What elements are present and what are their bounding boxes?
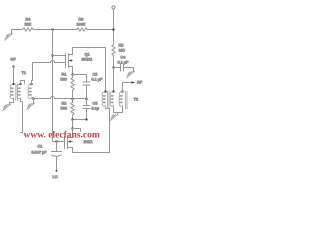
svg-text:R4: R4	[26, 18, 31, 22]
wire (R5 to C4 node)	[113, 56, 115, 68]
svg-text:www. elecfans.com: www. elecfans.com	[24, 131, 100, 141]
node (R1/C2 bottom junctions)	[72, 98, 74, 100]
ground (bias bus return)	[27, 103, 35, 110]
resistor R4	[23, 28, 34, 31]
node (R2/C3 bottom junctions)	[72, 119, 74, 121]
svg-text:R2: R2	[62, 102, 67, 106]
transformer T2 primary winding (drain load)	[102, 92, 105, 106]
svg-text:T2: T2	[134, 98, 138, 102]
wire (x52 rail: top bus down to Q2 gate, passes hops)	[52, 30, 54, 142]
svg-text:0.1 μF: 0.1 μF	[118, 61, 130, 65]
ground (T2 secondary return)	[110, 114, 118, 121]
node (junction top bus / supply rail)	[113, 29, 115, 31]
wire (bias bus y98.5 with hop over x52)	[34, 97, 87, 99]
wire (Q1 drain top run to T2 primary)	[73, 48, 106, 91]
inductor (oscillator coil winding)	[28, 85, 31, 99]
svg-text:C3: C3	[93, 102, 98, 106]
terminal (RF input dot)	[13, 66, 15, 68]
node (T2 secondary top dot)	[113, 91, 115, 93]
wire (ground stub T2)	[117, 113, 119, 115]
node (junction top bus / x52 rail)	[52, 29, 54, 31]
wire (R2/C3 bottom bus)	[73, 119, 87, 121]
svg-text:C1: C1	[38, 145, 43, 149]
wire (source node to C2)	[73, 75, 87, 83]
svg-text:RF: RF	[137, 81, 143, 85]
wire (drain node down to Q2)	[68, 129, 73, 138]
terminal B+ (open circle, top right)	[112, 6, 115, 9]
capacitor C1	[52, 142, 62, 171]
node (secondary top dot)	[20, 83, 22, 85]
capacitor C4	[121, 64, 124, 71]
svg-text:C4: C4	[121, 56, 126, 60]
svg-text:R1: R1	[62, 73, 67, 77]
wire (supply rail down to T2 secondary)	[113, 68, 115, 93]
node (oscillator coil top dot)	[31, 83, 33, 85]
svg-text:560: 560	[61, 107, 67, 111]
svg-text:T1: T1	[22, 71, 26, 75]
wire (antenna primary to ground)	[10, 98, 14, 105]
wire (secondary top hook)	[21, 81, 25, 84]
node (antenna coil top dot)	[13, 83, 15, 85]
ground (top-left, R4 return)	[5, 30, 13, 41]
transformer T2 secondary winding	[110, 92, 113, 106]
svg-text:0.1μ: 0.1μ	[92, 107, 99, 111]
terminal LO	[56, 170, 58, 172]
node (bias bus left dot)	[33, 98, 35, 100]
transformer core (T2 left)	[108, 91, 110, 109]
wire (top bus right segment)	[88, 29, 114, 31]
wire (bias bus ground stub)	[33, 99, 35, 104]
wire (tertiary top to RF out arrow)	[123, 83, 132, 93]
svg-text:100K: 100K	[77, 23, 86, 27]
resistor R6	[77, 28, 88, 31]
wire (node to C4)	[114, 67, 121, 69]
node (Q1 source junction)	[72, 74, 74, 76]
node (tertiary top dot)	[122, 91, 124, 93]
svg-text:R5: R5	[119, 44, 124, 48]
wire (top bus left segment)	[12, 29, 23, 31]
svg-text:0.047 μF: 0.047 μF	[32, 151, 48, 155]
wire (osc coil bottom jog to node)	[32, 98, 34, 99]
inductor (antenna primary winding)	[10, 85, 13, 99]
node (C1 tap dot)	[56, 141, 58, 143]
transformer T2 tertiary winding (RF out)	[119, 92, 122, 106]
capacitor C3	[83, 99, 90, 120]
wire (Q2 gate lead from x52 rail)	[53, 141, 65, 143]
inductor (antenna secondary winding)	[17, 85, 20, 99]
svg-text:LO: LO	[53, 175, 58, 179]
transformer core (antenna coil)	[16, 84, 17, 101]
svg-text:0.1 μF: 0.1 μF	[92, 78, 104, 82]
node (R5/C4 junction)	[113, 67, 115, 69]
wire (B+ down to R5)	[113, 10, 115, 45]
transformer core (T2 right)	[126, 91, 128, 109]
transistor Q2 (oscillator MOSFET)	[65, 137, 73, 153]
wire (gate-1 lead to Q1)	[53, 55, 66, 57]
wire (top bus middle segment)	[34, 29, 77, 31]
wire (drain node right stub)	[73, 129, 81, 132]
wire (secondary bottom to hidden terminal, long drop)	[21, 98, 23, 133]
node (gate-1 junction on x52 rail)	[52, 55, 54, 57]
wire (osc coil top up and right to gate-2, with hop over x52)	[32, 61, 66, 85]
transistor Q1 (dual-gate MOSFET)	[66, 48, 73, 75]
wire (Q2 source feedback loop to T2 primary bottom)	[73, 109, 110, 153]
wire (RF lead down to antenna coil)	[13, 67, 15, 85]
arrow (RF out)	[132, 81, 136, 83]
capacitor C2	[83, 82, 90, 85]
svg-text:2N21: 2N21	[84, 140, 93, 144]
wire (bus down to Q2 drain node)	[72, 120, 74, 129]
ground (C4 return)	[127, 71, 135, 78]
resistor R1	[71, 75, 74, 99]
wire (C4 to ground)	[124, 68, 134, 72]
resistor R2	[71, 99, 74, 120]
svg-text:100: 100	[119, 49, 125, 53]
svg-text:R6: R6	[79, 18, 84, 22]
svg-text:33K: 33K	[25, 23, 32, 27]
node (T2 primary top dot)	[105, 91, 107, 93]
wire (secondary bottom to ground bus)	[114, 106, 123, 113]
svg-text:RF: RF	[11, 58, 17, 62]
svg-text:560: 560	[61, 78, 67, 82]
ground (antenna primary return)	[3, 104, 11, 111]
svg-text:Q1: Q1	[85, 53, 90, 57]
resistor R5	[112, 45, 115, 56]
node (Q2 drain junction)	[72, 128, 74, 130]
svg-text:C2: C2	[93, 73, 98, 77]
svg-text:3N211: 3N211	[82, 58, 93, 62]
